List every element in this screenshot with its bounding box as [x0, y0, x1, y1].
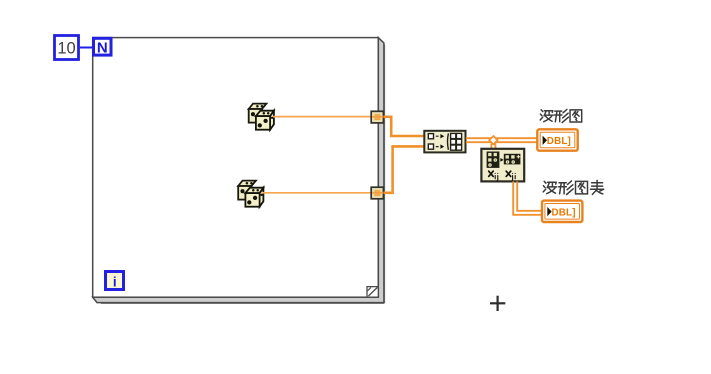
wire dice2 to tunnel2 — [263, 192, 373, 194]
tunnel 2 — [371, 187, 383, 199]
svg-text:i: i — [113, 275, 117, 290]
tunnel 1 — [371, 111, 383, 123]
waveform graph terminal DBL — [537, 129, 577, 150]
svg-text:DBL]: DBL] — [552, 207, 576, 218]
svg-text:10: 10 — [57, 40, 75, 58]
cursor crosshair — [490, 296, 505, 311]
for loop border — [93, 38, 385, 304]
2D array wire transpose to chart terminal — [513, 181, 542, 214]
2D array wire build array to graph terminal — [466, 138, 538, 142]
1D array wire tunnel2 to build array — [383, 146, 424, 192]
transpose 2D array node U2 — [481, 149, 524, 182]
svg-text:N: N — [97, 40, 108, 57]
wire junction — [489, 136, 497, 144]
build array node U1 — [424, 131, 465, 153]
for loop resize grip — [367, 287, 378, 298]
waveform chart terminal DBL — [542, 201, 582, 222]
2D array wire junction to transpose — [491, 144, 495, 151]
wire dice1 to tunnel1 — [273, 116, 372, 118]
svg-text:DBL]: DBL] — [547, 136, 571, 147]
1D array wire tunnel1 to build array — [383, 117, 424, 136]
random number dice 2 — [238, 181, 263, 207]
numeric constant 10 — [55, 36, 79, 60]
label waveform graph (hand-drawn CJK 波形图) — [540, 109, 582, 122]
label waveform chart (hand-drawn CJK 波形图表) — [543, 180, 604, 194]
iteration terminal i — [106, 272, 124, 290]
wire count 10 to N — [80, 47, 92, 49]
loop count terminal N — [94, 38, 112, 56]
random number dice 1 — [249, 104, 274, 130]
